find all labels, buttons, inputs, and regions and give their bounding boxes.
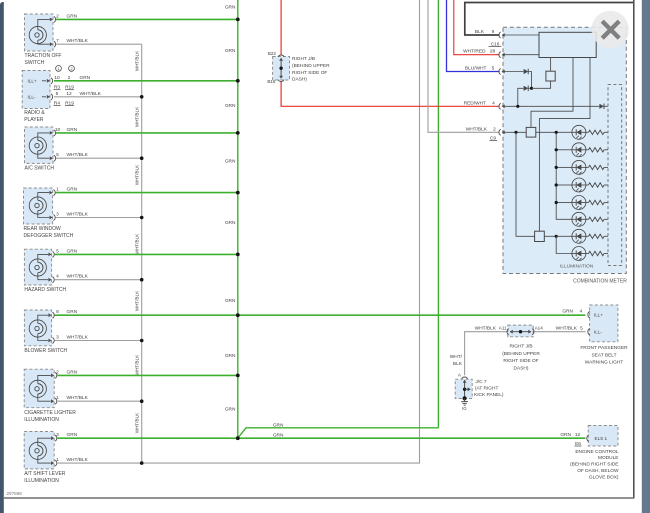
svg-text:1: 1	[56, 395, 59, 401]
label E6	[575, 441, 582, 447]
svg-text:WHT/BLK: WHT/BLK	[67, 38, 89, 44]
LED L3 with resistor R3	[572, 160, 608, 174]
svg-text:B22: B22	[268, 51, 277, 56]
svg-text:3: 3	[56, 432, 59, 438]
svg-text:GRN: GRN	[225, 103, 236, 109]
svg-text:10: 10	[54, 75, 60, 81]
wire WHT/BLK radio to bus	[54, 96, 142, 98]
ground IG	[461, 399, 468, 406]
svg-text:WHT/BLK: WHT/BLK	[67, 457, 89, 463]
wire pin2 row	[504, 131, 556, 133]
resistor box A	[546, 71, 555, 81]
wire BLU/WHT from top to meter pin 5	[447, 0, 500, 72]
svg-text:WHT/BLK: WHT/BLK	[67, 152, 89, 158]
connector J/C 7	[455, 377, 472, 400]
svg-text:5: 5	[56, 248, 59, 254]
svg-text:WHT/RED: WHT/RED	[463, 49, 486, 55]
wire pin4 row with diode D3	[504, 104, 608, 110]
svg-text:10: 10	[55, 127, 61, 133]
diode D2 from pin4 junction	[518, 86, 532, 107]
svg-text:RIGHT J/B: RIGHT J/B	[292, 56, 315, 62]
label B22	[268, 51, 277, 56]
svg-text:WHT/BLK: WHT/BLK	[135, 164, 140, 185]
svg-text:GRN: GRN	[225, 48, 236, 54]
label WHT/RED 28	[463, 49, 495, 55]
svg-text:5: 5	[56, 152, 59, 158]
node pin2 junction	[514, 131, 517, 134]
label ILLUMINATION	[560, 263, 594, 269]
svg-text:ILLUMINATION: ILLUMINATION	[24, 478, 59, 484]
label IG	[462, 406, 467, 411]
meter pin 28	[499, 52, 505, 58]
inner dashed box (illumination bus)	[608, 85, 622, 266]
switch S4 HAZARD SWITCH (bulb, pins 5/4)	[24, 248, 88, 293]
svg-text:GRN: GRN	[67, 432, 78, 438]
node blower GRN junction	[236, 313, 240, 317]
wire WHT/BLK bus (switch returns, down left side then right and up)	[142, 0, 420, 463]
wire pin28 to module	[504, 54, 539, 56]
svg-text:A/T SHIFT LEVER: A/T SHIFT LEVER	[24, 471, 66, 477]
svg-text:ILL-: ILL-	[28, 95, 36, 100]
wire pin5 with diode D1	[504, 69, 532, 89]
svg-text:12: 12	[575, 432, 581, 438]
svg-text:RADIO &: RADIO &	[24, 110, 45, 116]
node blower WHT/BLK junction	[140, 339, 144, 343]
label C16	[489, 41, 502, 47]
svg-text:GRN: GRN	[225, 220, 236, 226]
svg-text:ILL-: ILL-	[594, 330, 602, 335]
svg-text:IG: IG	[462, 406, 467, 411]
LED L7 with resistor R7	[572, 229, 608, 243]
svg-text:12: 12	[66, 91, 72, 97]
svg-text:GRN: GRN	[225, 4, 236, 10]
svg-text:5: 5	[56, 91, 59, 97]
switch S2 A/C SWITCH (bulb, pins 10/5)	[25, 127, 89, 172]
labels GRN on main bus	[225, 4, 236, 412]
wire GRN second bus (vertical right)	[437, 0, 439, 428]
svg-text:WHT/BLK: WHT/BLK	[135, 412, 140, 433]
LED bus segment lower	[556, 236, 572, 253]
wire pin9 to module	[504, 34, 539, 36]
meter pin 5	[499, 69, 505, 75]
node radio WHT/BLK junction	[140, 95, 144, 99]
svg-text:BLK: BLK	[475, 29, 485, 35]
label sheet number 297898	[7, 491, 23, 496]
svg-text:GRN: GRN	[80, 75, 91, 81]
svg-text:WHT/BLK: WHT/BLK	[466, 126, 488, 132]
wire GRN radio to bus	[54, 80, 238, 82]
svg-text:5: 5	[492, 66, 495, 72]
svg-text:HAZARD SWITCH: HAZARD SWITCH	[24, 287, 66, 293]
wire BLK from top edge to meter pin 9	[465, 3, 633, 36]
LED L5 with resistor R5	[572, 196, 608, 210]
switch S7 A/T SHIFT LEVER ILLUMINATION (bulb, pins 3/1)	[24, 432, 88, 485]
labels WHT/BLK on vertical bus	[135, 50, 140, 433]
label C9	[490, 135, 498, 141]
svg-text:B16: B16	[267, 79, 276, 84]
node bottom GRN junction	[236, 436, 240, 440]
LED L8 with resistor R8	[572, 247, 608, 261]
node hazard GRN junction	[236, 253, 240, 257]
label BLK 9	[475, 29, 495, 35]
LED L2 with resistor R2	[572, 143, 608, 157]
svg-text:GRN: GRN	[560, 432, 571, 438]
svg-text:WHT/BLK: WHT/BLK	[80, 91, 102, 97]
text ECM name	[570, 449, 619, 481]
svg-text:BLK: BLK	[453, 361, 463, 367]
LED bus segment upper	[556, 132, 572, 219]
wire WHT/BLK blower to bus	[55, 340, 142, 342]
node a/c GRN junction	[236, 131, 240, 135]
svg-text:SWITCH: SWITCH	[25, 60, 45, 66]
svg-text:7: 7	[56, 38, 59, 44]
node cigarette GRN junction	[236, 374, 240, 378]
meter pin 4	[499, 103, 505, 109]
svg-text:WHT/BLK: WHT/BLK	[135, 290, 140, 311]
svg-text:OF DASH, BELOW: OF DASH, BELOW	[577, 468, 619, 474]
svg-text:WHT/BLK: WHT/BLK	[135, 233, 140, 254]
wire RED/WHT from top through J/B	[281, 0, 500, 106]
connector RIGHT J/B A11/A14	[507, 325, 534, 337]
wire pin2 branch down to box B2	[516, 132, 535, 236]
node radio GRN junction	[236, 79, 240, 83]
wire GRN a/t shift to ECM (long bottom)	[57, 437, 585, 439]
svg-text:2: 2	[56, 13, 59, 19]
svg-text:GRN: GRN	[225, 407, 236, 413]
svg-text:4: 4	[580, 309, 583, 315]
svg-text:TRACTION OFF: TRACTION OFF	[25, 53, 62, 59]
label BLU/WHT 5	[465, 66, 495, 72]
node box B2 out junction	[555, 235, 558, 238]
label WHT/BLK (left of A11)	[475, 326, 497, 332]
svg-text:COMBINATION METER: COMBINATION METER	[573, 279, 627, 285]
node pin4 junction	[516, 105, 519, 108]
svg-text:J/C 7: J/C 7	[475, 379, 487, 385]
svg-text:ILLUMINATION: ILLUMINATION	[560, 263, 594, 269]
label GRN 4 (warning light)	[562, 309, 582, 315]
text RIGHT J/B note (bottom)	[502, 344, 540, 372]
meter module block	[539, 32, 596, 57]
svg-text:A14: A14	[535, 326, 544, 331]
node defogger WHT/BLK junction	[140, 216, 144, 220]
text J/C 7 note	[474, 379, 504, 398]
wire box A to module	[550, 58, 552, 72]
svg-text:GRN: GRN	[67, 187, 78, 193]
node cigarette WHT/BLK junction	[140, 399, 144, 403]
page bottom border	[4, 497, 635, 499]
svg-text:GRN: GRN	[67, 248, 78, 254]
svg-text:8: 8	[56, 309, 59, 315]
svg-text:4: 4	[492, 100, 495, 106]
wire to resistor box A	[532, 81, 551, 88]
svg-text:ELS 1: ELS 1	[595, 436, 608, 441]
svg-text:WHT/BLK: WHT/BLK	[556, 326, 578, 332]
left window border bar	[0, 2, 4, 513]
text warning light name	[580, 345, 628, 366]
svg-text:ILL+: ILL+	[594, 313, 603, 318]
svg-text:DEFOGGER SWITCH: DEFOGGER SWITCH	[24, 233, 74, 239]
svg-text:2: 2	[56, 369, 59, 375]
wire WHT/RED from top to meter pin 28	[454, 0, 500, 55]
svg-text:ENGINE CONTROL: ENGINE CONTROL	[575, 449, 619, 455]
svg-text:(AT RIGHT: (AT RIGHT	[475, 386, 499, 392]
svg-text:GRN: GRN	[225, 159, 236, 165]
label GRN upper link	[273, 423, 284, 429]
svg-text:GRN: GRN	[67, 369, 78, 375]
svg-text:GLOVE BOX): GLOVE BOX)	[589, 474, 619, 480]
svg-text:1: 1	[57, 67, 59, 71]
switch S3 REAR WINDOW DEFOGGER SWITCH (bulb, pins 1/3)	[24, 187, 89, 240]
svg-text:DASH): DASH)	[514, 366, 529, 372]
svg-text:A/C SWITCH: A/C SWITCH	[25, 166, 55, 172]
svg-text:FRONT PASSENGER: FRONT PASSENGER	[580, 345, 628, 351]
node defogger GRN junction	[236, 191, 240, 195]
right scrollbar strip	[642, 0, 650, 513]
svg-text:KICK PANEL): KICK PANEL)	[474, 392, 504, 398]
wire WHT/BLK a/t shift to bus	[57, 462, 142, 464]
svg-text:GRN: GRN	[67, 127, 78, 133]
svg-text:GRN: GRN	[273, 423, 284, 429]
page right border	[633, 0, 635, 498]
label RED/WHT 4	[464, 100, 496, 106]
label A14	[535, 326, 544, 331]
wire GRN upper bottom link	[238, 428, 439, 438]
svg-text:ILLUMINATION: ILLUMINATION	[24, 417, 59, 423]
svg-text:MODULE: MODULE	[598, 455, 619, 461]
LED L4 with resistor R4	[572, 178, 608, 192]
wire WHT/BLK cigarette to bus	[57, 400, 142, 402]
wire GRN traction pin2 to bus	[56, 18, 238, 20]
meter pin 9	[499, 32, 505, 38]
wire module step to box B2	[539, 58, 590, 232]
svg-text:RIGHT SIDE OF: RIGHT SIDE OF	[292, 70, 327, 76]
meter pin 2	[499, 129, 505, 135]
svg-text:RIGHT SIDE OF: RIGHT SIDE OF	[503, 358, 538, 364]
svg-text:WHT/BLK: WHT/BLK	[67, 335, 89, 341]
node hazard WHT/BLK junction	[140, 278, 144, 282]
svg-text:WHT/BLK: WHT/BLK	[67, 212, 89, 218]
svg-text:RED/WHT: RED/WHT	[464, 100, 486, 106]
wire WHT/BLK hazard to bus	[55, 279, 142, 281]
svg-text:9: 9	[492, 29, 495, 35]
svg-text:WHT/BLK: WHT/BLK	[475, 326, 497, 332]
connector RADIO and PLAYER (ILL+/ILL- pins 10,2 / 5,12)	[22, 66, 101, 124]
svg-text:3: 3	[56, 212, 59, 218]
svg-text:BLOWER SWITCH: BLOWER SWITCH	[24, 348, 67, 354]
svg-text:3: 3	[56, 335, 59, 341]
svg-text:2: 2	[68, 75, 71, 81]
label WHT/ BLK (vertical run)	[450, 354, 463, 367]
LED L6 with resistor R6	[572, 212, 608, 226]
svg-text:DASH): DASH)	[292, 77, 307, 83]
component ENGINE CONTROL MODULE	[587, 426, 618, 447]
svg-text:1: 1	[56, 457, 59, 463]
svg-text:GRN: GRN	[67, 309, 78, 315]
wire WHT/BLK warning light to A14	[534, 331, 586, 333]
svg-text:A11: A11	[499, 326, 507, 331]
label GRN lower link	[273, 432, 284, 438]
LED row stub wires	[555, 131, 572, 237]
label A (J/C7 entry)	[458, 372, 462, 377]
svg-text:GRN: GRN	[562, 309, 573, 315]
wire GRN blower to warning light (long)	[55, 314, 586, 316]
svg-text:GRN: GRN	[67, 13, 78, 19]
combination meter outer box	[503, 27, 626, 273]
svg-text:GRN: GRN	[225, 298, 236, 304]
close button	[592, 11, 629, 48]
svg-text:WHT/BLK: WHT/BLK	[67, 395, 89, 401]
wire GRN defogger to bus	[56, 192, 238, 194]
svg-text:WHT/BLK: WHT/BLK	[135, 50, 140, 71]
svg-text:4: 4	[56, 274, 59, 280]
label GRN 12 (ECM)	[560, 432, 580, 438]
svg-text:WHT/: WHT/	[450, 354, 463, 360]
svg-text:PLAYER: PLAYER	[24, 117, 44, 123]
svg-text:WARNING LIGHT: WARNING LIGHT	[585, 360, 624, 366]
wire GRN main bus (vertical)	[237, 0, 239, 438]
wire GRN cigarette to bus	[57, 374, 238, 376]
svg-text:1: 1	[56, 187, 59, 193]
LED L1 with resistor R1	[572, 125, 608, 139]
svg-text:CIGARETTE LIGHTER: CIGARETTE LIGHTER	[24, 410, 76, 416]
switch S1 TRACTION OFF SWITCH (bulb, pins 2/7)	[25, 13, 89, 66]
svg-text:GRN: GRN	[225, 353, 236, 359]
label WHT/BLK 5 (warning light)	[556, 326, 583, 332]
component FRONT PASSENGER SEAT BELT WARNING LIGHT	[588, 305, 618, 342]
text RIGHT J/B note (top)	[292, 56, 330, 82]
svg-text:SEAT BELT: SEAT BELT	[591, 352, 616, 358]
svg-text:2: 2	[493, 126, 496, 132]
wire GRN hazard to bus	[55, 253, 238, 255]
svg-text:297898: 297898	[7, 491, 23, 496]
resistor box B2	[535, 231, 545, 241]
svg-text:(BEHIND UPPER: (BEHIND UPPER	[292, 63, 330, 69]
svg-text:WHT/BLK: WHT/BLK	[135, 354, 140, 375]
node a/c WHT/BLK junction	[140, 156, 144, 160]
svg-text:WHT/BLK: WHT/BLK	[67, 274, 89, 280]
svg-text:REAR WINDOW: REAR WINDOW	[24, 226, 62, 232]
label B16	[267, 79, 276, 84]
wire module step to box B1	[531, 58, 573, 128]
svg-text:(BEHIND UPPER: (BEHIND UPPER	[502, 351, 540, 357]
switch S5 BLOWER SWITCH (bulb, pins 8/3)	[24, 309, 88, 354]
wire WHT/BLK from top to meter pin 2	[428, 0, 500, 132]
label A11	[499, 326, 507, 331]
label WHT/BLK 2	[466, 126, 496, 132]
label COMBINATION METER	[573, 279, 627, 285]
wire GRN a/c to bus	[56, 132, 238, 134]
resistor box B1	[526, 127, 536, 137]
svg-text:ILL+: ILL+	[28, 79, 37, 84]
svg-text:(BEHIND RIGHT SIDE: (BEHIND RIGHT SIDE	[570, 462, 618, 468]
svg-text:2: 2	[70, 67, 72, 71]
wire WHT/BLK a/c to bus	[56, 157, 142, 159]
switch S6 CIGARETTE LIGHTER ILLUMINATION (bulb, pins 2/1)	[24, 369, 88, 423]
node D1/D2 junction	[530, 87, 533, 90]
svg-text:RIGHT J/B: RIGHT J/B	[509, 344, 532, 350]
node traction GRN junction	[236, 18, 240, 22]
wire box B2 out	[544, 235, 556, 237]
svg-text:5: 5	[580, 326, 583, 332]
connector RIGHT J/B B22/B16	[273, 55, 290, 82]
svg-text:BLU/WHT: BLU/WHT	[465, 66, 487, 72]
wire WHT/BLK defogger to bus	[56, 217, 142, 219]
svg-text:WHT/BLK: WHT/BLK	[135, 106, 140, 127]
node a/t WHT/BLK junction	[140, 461, 144, 465]
svg-text:28: 28	[490, 49, 496, 55]
wire WHT/BLK traction pin7 to bus	[56, 43, 142, 45]
wire WHT/BLK A11 to J/C7	[465, 332, 508, 376]
